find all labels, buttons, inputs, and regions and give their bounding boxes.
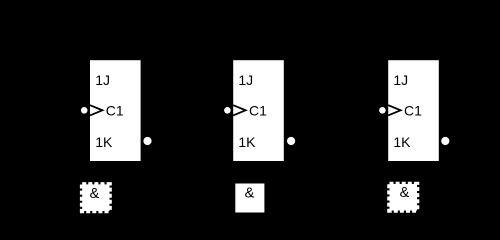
flip-flop FF3 xyxy=(379,60,449,161)
FF1 clock input bubble xyxy=(81,107,88,114)
svg-text:C1: C1 xyxy=(249,102,267,118)
G2 body xyxy=(235,184,264,213)
FF3 clock wedge xyxy=(388,105,400,115)
FF3 body xyxy=(388,60,439,161)
FF2 clock wedge xyxy=(233,105,245,115)
svg-text:1K: 1K xyxy=(393,134,411,150)
AND gate G1 (dashed selection border) xyxy=(82,184,109,211)
G1 dashed outline xyxy=(82,184,109,211)
G3 body xyxy=(390,184,418,211)
AND gate G3 (dashed selection border) xyxy=(390,184,418,211)
svg-text:&: & xyxy=(400,185,410,201)
AND gate G2 xyxy=(235,184,264,213)
svg-text:&: & xyxy=(90,186,100,202)
FF1 clock wedge xyxy=(90,105,102,115)
FF2 body xyxy=(233,60,284,161)
FF3 clock input bubble xyxy=(379,107,386,114)
FF2 clock input bubble xyxy=(224,107,231,114)
G1 body xyxy=(82,184,109,211)
svg-text:1J: 1J xyxy=(95,72,110,88)
G3 dashed outline xyxy=(390,184,418,211)
flip-flop FF2 xyxy=(224,60,295,161)
FF2 output dot xyxy=(287,137,295,145)
FF1 output dot xyxy=(143,137,151,145)
FF3 output dot xyxy=(441,137,449,145)
svg-text:1K: 1K xyxy=(238,134,256,150)
FF1 body xyxy=(90,60,141,161)
svg-text:1K: 1K xyxy=(95,134,113,150)
flip-flop FF1 xyxy=(81,60,152,161)
svg-text:1J: 1J xyxy=(238,72,253,88)
svg-text:C1: C1 xyxy=(106,102,124,118)
svg-text:C1: C1 xyxy=(404,102,422,118)
svg-text:&: & xyxy=(245,186,255,202)
svg-text:1J: 1J xyxy=(393,72,408,88)
